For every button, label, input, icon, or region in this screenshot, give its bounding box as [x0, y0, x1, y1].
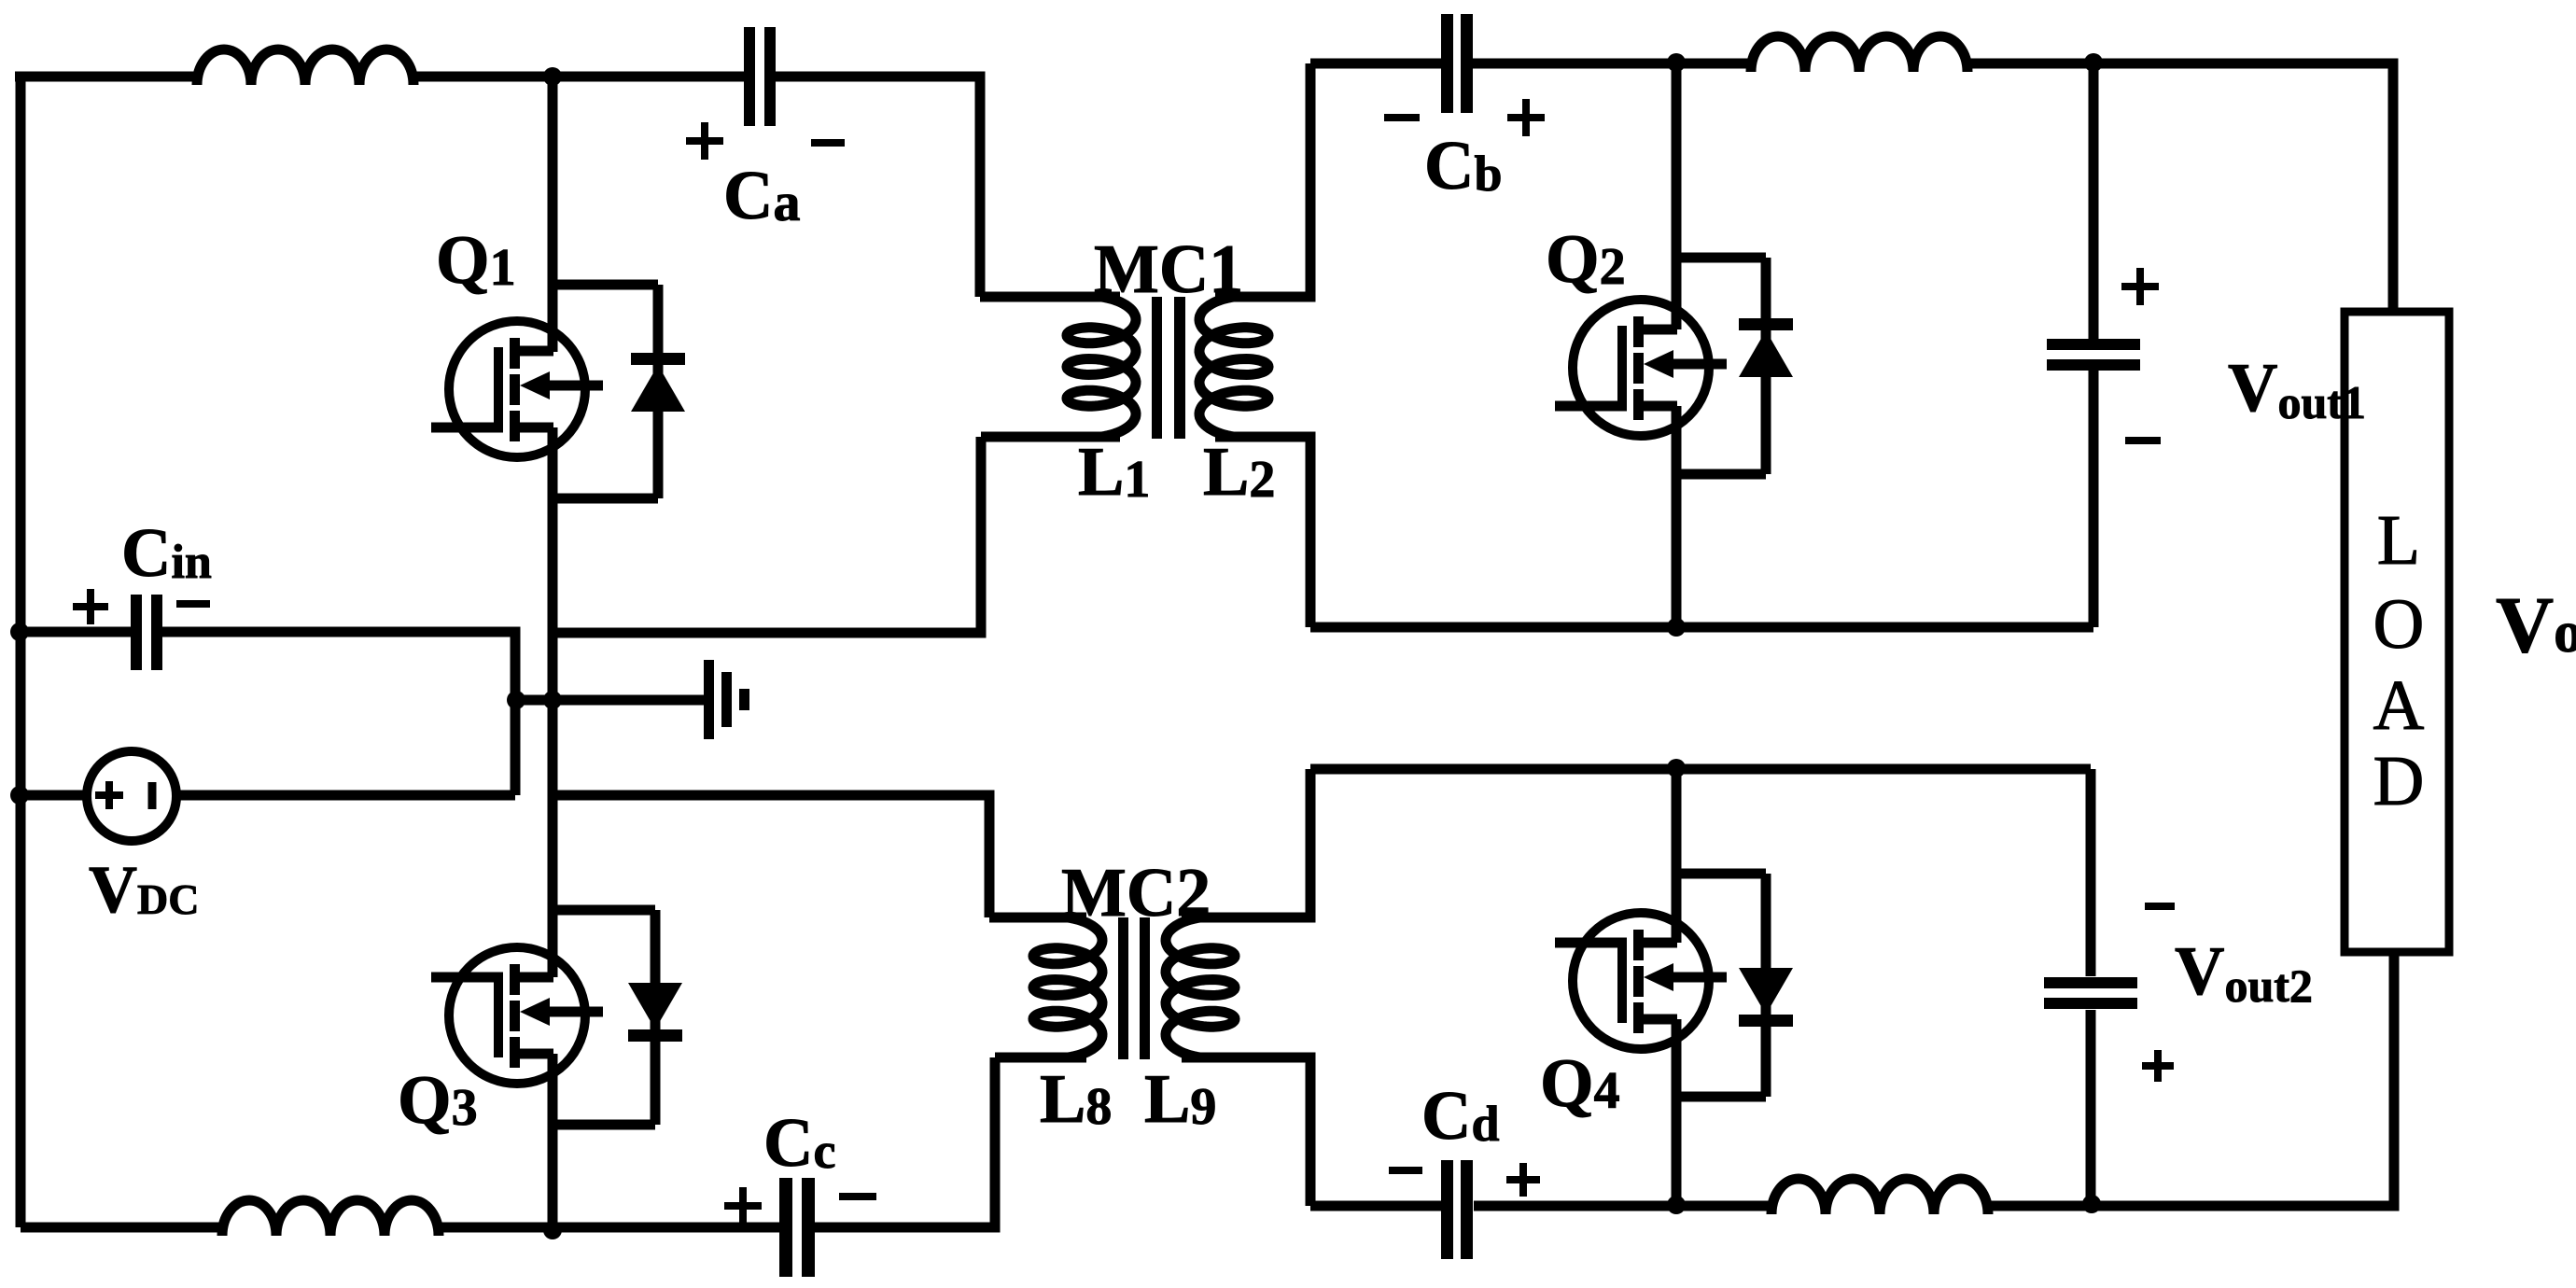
inductor L8 (MC2 primary)	[1033, 917, 1102, 1057]
capacitor Cb	[1441, 14, 1453, 113]
label plus Cb	[1507, 114, 1545, 121]
node junction dot top-right at Q2	[1667, 53, 1686, 72]
wire left border vertical	[16, 81, 26, 1227]
svg-text:L2: L2	[1203, 434, 1275, 511]
label minus Cin	[176, 600, 210, 608]
node junction dot bottom-left rail at Q3	[543, 1221, 562, 1239]
wire Q4 top vertical	[1672, 768, 1682, 943]
node junction dot mid rail at Q4 drain	[1667, 759, 1686, 777]
svg-text:D: D	[2373, 742, 2425, 820]
inductor output-top	[1751, 36, 1967, 72]
wire Q4 diode top branch	[1676, 869, 1766, 879]
wire L8 top lead	[989, 913, 1086, 923]
transistor Q2	[1573, 300, 1709, 436]
label minus Vout1	[2125, 437, 2161, 444]
wire L9 top lead then up	[1182, 769, 1310, 917]
node junction dot at Q1 drain / top rail	[543, 67, 562, 86]
svg-text:Cd: Cd	[1421, 1078, 1500, 1155]
wire Vout1 top vertical	[2089, 63, 2099, 342]
capacitor Vout2	[2044, 977, 2137, 988]
wire L2 bottom lead then down	[1215, 437, 1310, 627]
svg-text:Vout2: Vout2	[2175, 933, 2313, 1012]
label plus Vout2	[2142, 1062, 2174, 1070]
wire Q3 diode bottom branch	[553, 1120, 655, 1130]
wire bottom-left rail segment C then up to L8 bottom	[810, 1057, 995, 1227]
inductor input-bottom	[222, 1200, 439, 1236]
wire bottom-right rail segment B	[1474, 1201, 1771, 1211]
wire L1 bottom lead	[981, 432, 1120, 442]
svg-text:Cin: Cin	[121, 515, 212, 592]
svg-text:Q2: Q2	[1546, 221, 1626, 298]
transistor Q4	[1573, 913, 1709, 1049]
wire Q1 source vertical down to Q3	[548, 427, 558, 977]
load resistor block LOAD	[2345, 312, 2449, 952]
wire Q3 drain vertical to bottom rail	[548, 1054, 558, 1230]
svg-text:MC1: MC1	[1094, 231, 1243, 308]
svg-text:Q1: Q1	[436, 222, 516, 299]
wire VDC left lead	[21, 791, 87, 801]
wire Q1-source to L1-bottom branch	[553, 437, 981, 633]
wire link Cin jog to Q1 source node	[515, 695, 553, 706]
capacitor Cd	[1441, 1160, 1453, 1259]
node junction dot mid rail at Q2 source	[1667, 618, 1686, 637]
label plus Cd	[1506, 1176, 1540, 1183]
svg-text:VDC: VDC	[89, 852, 199, 927]
node junction dot bottom-right rail at Vout2	[2082, 1195, 2101, 1213]
svg-text:A: A	[2373, 666, 2425, 745]
diode D3 (body diode of Q3)	[651, 910, 661, 1125]
wire top-left rail segment B	[413, 72, 746, 82]
svg-text:L8: L8	[1040, 1061, 1112, 1138]
diode D2 (body diode of Q2)	[1761, 258, 1771, 474]
inductor input-top	[197, 49, 413, 85]
transistor Q3	[449, 947, 585, 1084]
svg-text:Cb: Cb	[1424, 128, 1503, 204]
wire L9 bottom lead then down	[1182, 1057, 1310, 1206]
capacitor Cin	[131, 595, 142, 670]
wire top-right rail segment B	[1473, 59, 1751, 69]
wire mid rail top section	[1310, 623, 2093, 633]
wire Q2 diode bottom branch	[1676, 469, 1766, 480]
transformer MC2 core	[1118, 917, 1128, 1059]
svg-text:Vo: Vo	[2496, 580, 2576, 669]
wire bottom-right rail segment A	[1310, 1201, 1444, 1211]
transistor Q1	[449, 321, 585, 457]
label plus Cin	[73, 603, 108, 610]
wire bottom-left rail segment A	[21, 1223, 222, 1233]
diode D4 (body diode of Q4)	[1761, 874, 1771, 1097]
node junction dot bottom-right rail at Q4	[1667, 1196, 1686, 1214]
label plus Ca	[686, 137, 723, 145]
capacitor Cc	[779, 1178, 792, 1277]
wire Q3 diode top branch	[553, 905, 655, 916]
label minus Vout2	[2145, 903, 2175, 910]
node junction dot Cin jog	[507, 691, 525, 709]
wire Vout2 bottom vertical	[2086, 1010, 2096, 1204]
transformer MC1 core	[1152, 297, 1162, 439]
capacitor Ca	[744, 27, 755, 126]
label minus Cd	[1389, 1167, 1422, 1174]
node junction dot left rail VDC	[10, 786, 29, 805]
diode D1 (body diode of Q1)	[653, 285, 664, 498]
wire bottom-left rail segment B	[435, 1223, 784, 1233]
capacitor Vout1	[2047, 339, 2140, 350]
wire Q1 diode top branch	[553, 280, 658, 290]
svg-text:L: L	[2377, 501, 2420, 580]
svg-text:L9: L9	[1144, 1061, 1216, 1138]
inductor L2 (MC1 secondary)	[1199, 297, 1268, 437]
node junction dot top-right at Vout1	[2084, 53, 2103, 72]
svg-text:L1: L1	[1078, 434, 1150, 511]
node junction dot main vertical at ground	[543, 691, 562, 709]
svg-text:MC2: MC2	[1061, 855, 1211, 931]
node junction dot left rail Cin	[10, 623, 29, 641]
wire bottom-right rail segment C then up to LOAD bottom	[1988, 952, 2394, 1206]
wire top-right rail segment C then down to LOAD top	[1967, 63, 2393, 312]
wire L1 top lead	[980, 292, 1120, 302]
wire mid rail bottom section	[1310, 764, 2091, 775]
svg-text:Q4: Q4	[1540, 1045, 1620, 1122]
wire VDC right lead	[176, 791, 515, 801]
wire Q-node to MC2-L8 top	[553, 795, 989, 917]
label plus Cc	[724, 1202, 762, 1210]
wire Q1 diode bottom branch	[553, 494, 658, 504]
wire Cin rail left	[21, 627, 134, 637]
wire Q1 drain vertical	[548, 77, 558, 352]
wire ground branch	[553, 695, 704, 706]
wire top-left rail segment A	[15, 72, 197, 82]
wire L8 bottom lead	[995, 1053, 1086, 1063]
wire top-left rail segment C (Ca to corner), then down to MC1-L1 top	[774, 77, 980, 297]
label minus Cc	[839, 1193, 876, 1200]
label minus Cb	[1384, 114, 1420, 121]
wire Vout1 bottom vertical	[2089, 369, 2099, 627]
svg-text:Q3: Q3	[398, 1062, 478, 1139]
svg-text:Ca: Ca	[723, 158, 800, 234]
wire Cin rail right then jog down	[159, 632, 515, 795]
wire Q2 source vertical	[1672, 406, 1682, 627]
wire Q4 diode bottom branch	[1676, 1092, 1766, 1102]
wire Q4 bottom vertical	[1672, 1019, 1682, 1205]
label minus Ca	[811, 139, 845, 147]
inductor L9 (MC2 secondary)	[1166, 917, 1235, 1057]
voltage source VDC	[87, 751, 176, 841]
inductor L1 (MC1 primary)	[1067, 297, 1136, 437]
wire Q2 diode top branch	[1676, 253, 1766, 263]
svg-text:Cc: Cc	[763, 1105, 835, 1182]
inductor output-bottom	[1771, 1179, 1988, 1214]
wire Vout2 top vertical	[2086, 769, 2096, 976]
label plus Vout1	[2121, 283, 2159, 290]
ground symbol	[704, 660, 714, 739]
wire top-right rail segment A	[1310, 59, 1442, 69]
wire Q2 drain vertical	[1672, 63, 1682, 329]
wire L2 top lead then up to Cb	[1215, 63, 1310, 297]
svg-text:O: O	[2373, 585, 2425, 664]
